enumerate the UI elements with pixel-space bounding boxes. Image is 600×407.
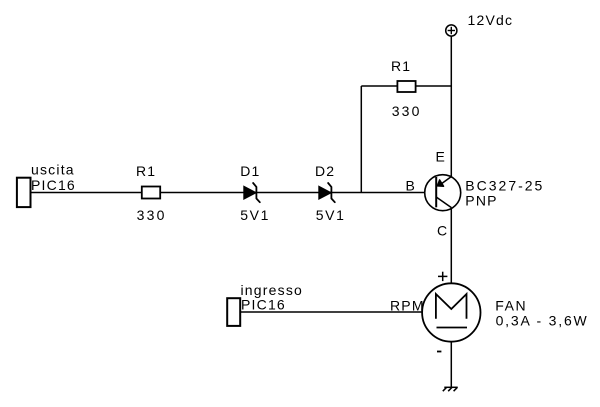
svg-text:5V1: 5V1 [316, 207, 346, 223]
wire: vertical branch from main wire up to R1 branch [360, 86, 362, 193]
svg-text:D1: D1 [240, 163, 260, 179]
svg-text:C: C [437, 223, 448, 239]
svg-text:R1: R1 [391, 58, 411, 74]
svg-text:D2: D2 [315, 163, 335, 179]
resistor R1 (top branch) [397, 81, 415, 92]
motor FAN [422, 283, 480, 341]
svg-text:BC327-25: BC327-25 [465, 178, 544, 194]
svg-text:0,3A - 3,6W: 0,3A - 3,6W [496, 312, 589, 328]
svg-text:RPM: RPM [390, 298, 425, 314]
svg-text:PIC16: PIC16 [241, 297, 286, 313]
plus terminal mark [438, 272, 447, 281]
wire: motor bottom to ground [450, 340, 452, 387]
svg-text:B: B [406, 178, 417, 194]
transistor Q1 BC327-25 PNP [425, 175, 461, 211]
wire: collector to motor [450, 200, 452, 290]
svg-text:330: 330 [392, 103, 422, 119]
svg-text:12Vdc: 12Vdc [468, 12, 514, 28]
ground [443, 387, 458, 391]
diode D1 (zener) [244, 183, 260, 202]
wire: main emitter vertical from 12Vdc down to transistor [450, 36, 452, 180]
svg-text:E: E [436, 148, 447, 164]
power symbol 12Vdc [446, 25, 457, 36]
svg-text:5V1: 5V1 [240, 207, 270, 223]
svg-text:330: 330 [137, 207, 167, 223]
wire: ingresso RPM line [241, 311, 424, 313]
connector ingresso PIC16 [227, 298, 240, 326]
svg-text:PNP: PNP [465, 193, 497, 209]
svg-text:R1: R1 [136, 163, 156, 179]
diode D2 (zener) [319, 183, 335, 202]
minus terminal mark [437, 351, 441, 353]
wire: top R1 branch horizontal [361, 85, 452, 87]
resistor R1 (series) [142, 187, 160, 199]
svg-text:PIC16: PIC16 [31, 177, 76, 193]
wire: main horizontal uscita line [31, 192, 426, 194]
svg-text:uscita: uscita [31, 162, 75, 178]
svg-text:FAN: FAN [495, 297, 527, 313]
connector uscita PIC16 [17, 178, 31, 207]
